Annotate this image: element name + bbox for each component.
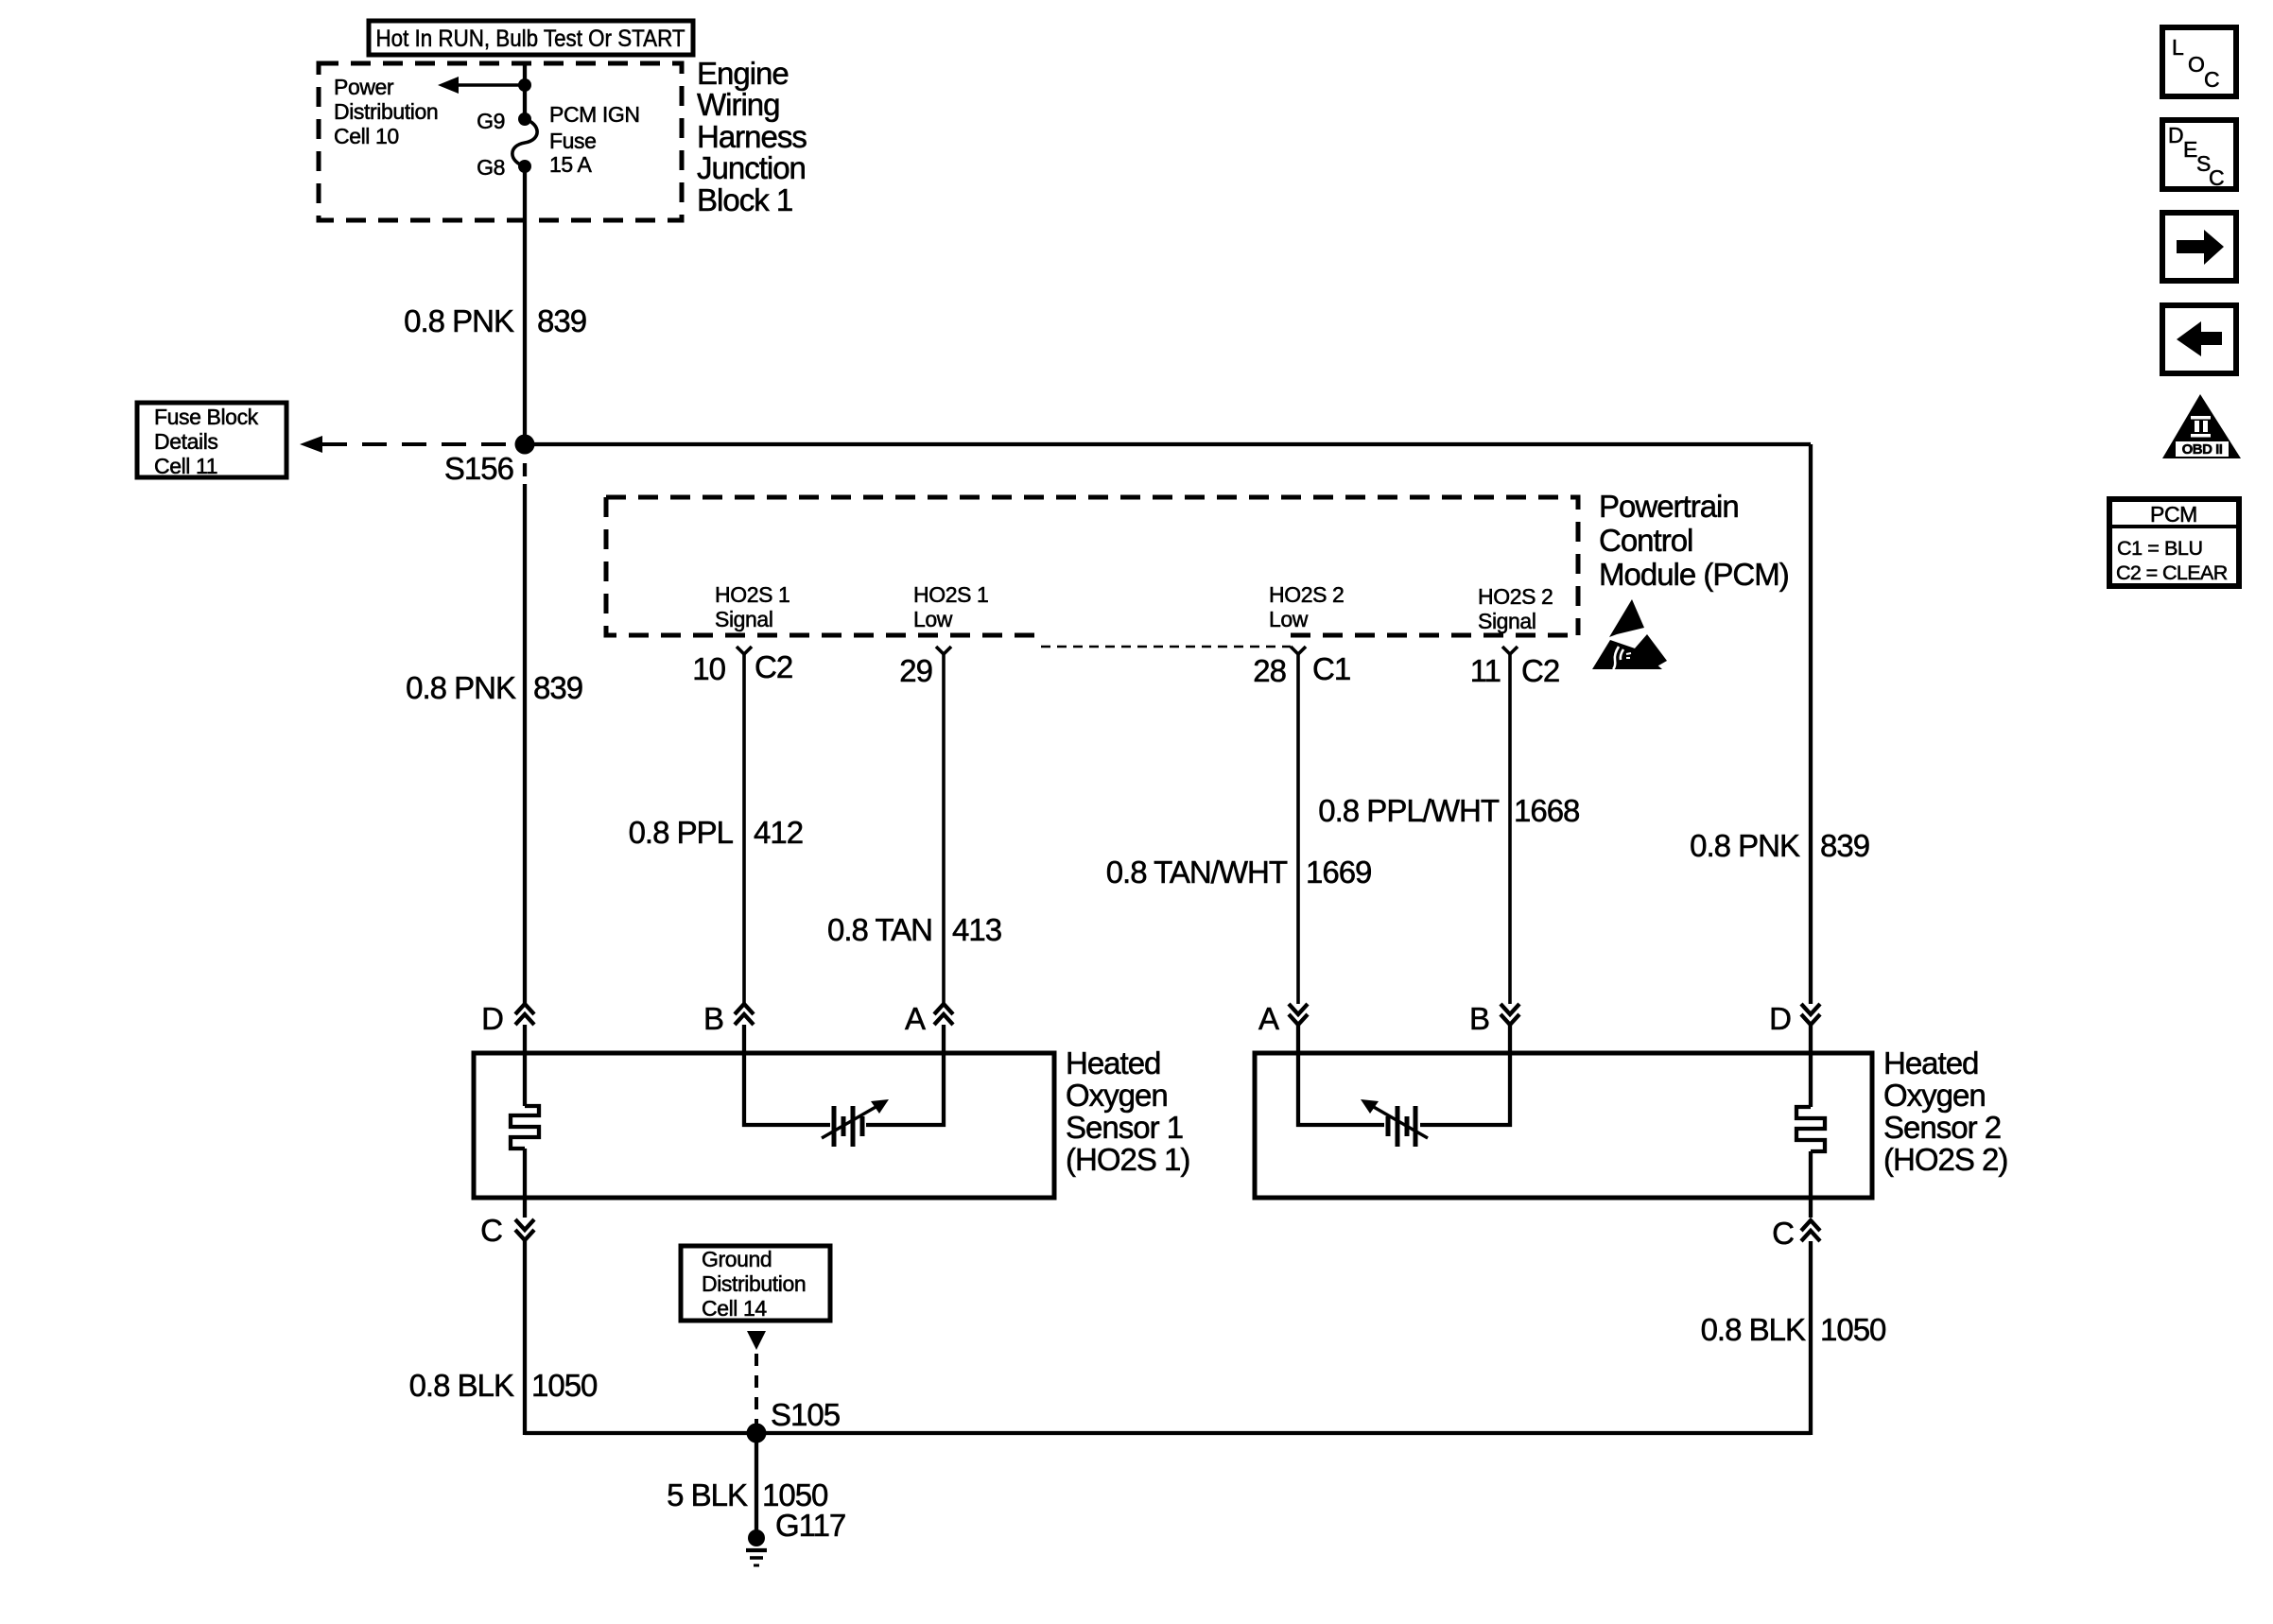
wire fuse output down to S156: [523, 166, 527, 444]
pin 10 C2 Y-connector: [737, 647, 752, 1004]
svg-text:28: 28: [1253, 653, 1286, 688]
svg-text:0.8 PNK: 0.8 PNK: [1690, 828, 1800, 863]
svg-text:A: A: [1258, 1001, 1279, 1036]
fuse PCM IGN 15A squiggle: [512, 119, 537, 166]
wire pin D into HO2S2 heater: [1809, 1025, 1813, 1107]
svg-text:0.8 PNK: 0.8 PNK: [406, 670, 516, 705]
wire label 0.8 TAN 413: [827, 912, 1001, 947]
pin 11 C2 labels: [1470, 653, 1559, 688]
svg-text:D: D: [481, 1001, 503, 1036]
sensing element (variable cell) HO2S1: [822, 1099, 889, 1147]
node G8 terminal dot: [518, 160, 531, 173]
HO2S2 box: [1255, 1053, 1872, 1198]
wire heater to pin C HO2S2: [1809, 1151, 1813, 1218]
svg-text:PCM: PCM: [2150, 502, 2197, 527]
svg-text:1050: 1050: [531, 1368, 598, 1403]
svg-text:OBD II: OBD II: [2182, 441, 2223, 458]
wire label 0.8 PNK 839 (upper): [404, 303, 586, 338]
wire HO2S1 C down to ground bus: [523, 1241, 527, 1435]
svg-text:C2: C2: [755, 649, 792, 684]
svg-text:A: A: [905, 1001, 926, 1036]
wire pin D into HO2S1 heater: [523, 1025, 527, 1106]
svg-text:11: 11: [1470, 653, 1501, 688]
ground G117 symbol: [746, 1529, 767, 1565]
node splice S105: [747, 1424, 767, 1443]
svg-text:G117: G117: [775, 1508, 845, 1543]
wire S105 down to G117: [755, 1433, 758, 1533]
svg-text:29: 29: [899, 653, 932, 688]
pin 11 C2 Y-connector: [1502, 647, 1518, 1004]
svg-text:412: 412: [754, 815, 803, 850]
connector split dashed line between C2 and C1 pins: [1041, 646, 1291, 648]
heater element HO2S2: [1796, 1107, 1825, 1151]
wire label 0.8 BLK 1050 (left): [409, 1368, 598, 1403]
connector chevrons pin A HO2S2 (down): [1289, 1004, 1308, 1025]
pin 10 C2 labels: [692, 649, 792, 686]
svg-text:S156: S156: [444, 451, 513, 486]
connector chevrons pin A HO2S1 (up): [934, 1004, 953, 1025]
svg-text:C2: C2: [1521, 653, 1559, 688]
wire pin A down inside HO2S1: [866, 1025, 944, 1125]
title box "Hot In RUN, Bulb Test Or START": [369, 21, 693, 55]
node G9 terminal dot: [518, 112, 531, 126]
wire right branch down to HO2S2 pin D: [1809, 444, 1813, 1004]
wire label 0.8 PNK 839 (right): [1690, 828, 1869, 863]
svg-text:0.8 BLK: 0.8 BLK: [1701, 1312, 1806, 1347]
wire label 0.8 TAN/WHT 1669: [1106, 855, 1372, 890]
svg-text:0.8 BLK: 0.8 BLK: [409, 1368, 514, 1403]
reference arrow from Ground Distribution box: [747, 1331, 766, 1350]
wire pin A down inside HO2S2: [1298, 1025, 1384, 1125]
OBD II warning triangle: [2162, 394, 2241, 458]
svg-text:0.8 PNK: 0.8 PNK: [404, 303, 514, 338]
wire from junction box top to fuse: [523, 61, 527, 119]
svg-text:C1: C1: [1312, 651, 1350, 686]
sensing element (variable cell) HO2S2: [1361, 1099, 1428, 1147]
svg-text:G8: G8: [477, 155, 505, 180]
legend right-arrow box: [2162, 213, 2236, 281]
wire HO2S2 C down to ground bus: [1809, 1241, 1813, 1435]
svg-text:C1 = BLU: C1 = BLU: [2117, 537, 2203, 560]
svg-text:839: 839: [1820, 828, 1869, 863]
pin 28 C1 Y-connector: [1291, 647, 1306, 1004]
wire label 0.8 BLK 1050 (right): [1701, 1312, 1886, 1347]
svg-text:1050: 1050: [1820, 1312, 1886, 1347]
pin 28 C1 labels: [1253, 651, 1350, 688]
box Fuse Block Details Cell 11: [137, 403, 286, 478]
ESD sensitivity symbol: [1592, 599, 1667, 669]
svg-text:413: 413: [952, 912, 1001, 947]
wire S156 horizontal bus to right side: [525, 442, 1811, 446]
svg-text:0.8 TAN: 0.8 TAN: [827, 912, 932, 947]
wire label 0.8 PPL/WHT 1668: [1318, 793, 1579, 828]
legend DESC box: [2162, 120, 2236, 190]
svg-text:0.8 PPL: 0.8 PPL: [629, 815, 734, 850]
PCM dashed box (Powertrain Control Module): [606, 497, 1578, 635]
svg-text:C2 = CLEAR: C2 = CLEAR: [2116, 561, 2228, 584]
svg-text:B: B: [703, 1001, 723, 1036]
svg-text:839: 839: [533, 670, 582, 705]
svg-text:1669: 1669: [1306, 855, 1371, 890]
svg-text:D: D: [1769, 1001, 1791, 1036]
connector chevrons pin D HO2S1 (up): [515, 1004, 534, 1025]
svg-text:S105: S105: [771, 1397, 840, 1432]
legend LOC box: [2162, 27, 2236, 96]
heater element HO2S1: [511, 1106, 539, 1149]
node junction dot in block: [518, 78, 531, 92]
pin 29 Y-connector: [936, 647, 951, 1004]
wire arrow to Power Distribution: [438, 77, 525, 94]
svg-text:5 BLK: 5 BLK: [667, 1477, 748, 1512]
svg-text:0.8 TAN/WHT: 0.8 TAN/WHT: [1106, 855, 1288, 890]
HO2S1 box: [474, 1053, 1054, 1198]
wire pin B down inside HO2S1: [744, 1025, 830, 1125]
dashed wire to S105: [755, 1354, 758, 1425]
wire pin B down inside HO2S2: [1420, 1025, 1510, 1125]
junction block dashed box (Engine Wiring Harness Junction Block 1): [319, 63, 682, 220]
svg-text:1668: 1668: [1514, 793, 1579, 828]
svg-text:839: 839: [537, 303, 586, 338]
legend left-arrow box: [2162, 305, 2236, 373]
svg-text:Hot In RUN, Bulb Test Or START: Hot In RUN, Bulb Test Or START: [376, 26, 685, 52]
connector chevrons pin C HO2S2 (up): [1801, 1220, 1820, 1241]
svg-text:10: 10: [692, 651, 725, 686]
svg-text:G9: G9: [477, 109, 505, 133]
dashed reference arrow to Fuse Block Details: [300, 436, 515, 453]
connector chevrons pin C HO2S1 (down): [515, 1219, 534, 1240]
ground bus wire: [525, 1431, 1811, 1435]
svg-text:0.8 PPL/WHT: 0.8 PPL/WHT: [1318, 793, 1500, 828]
wire label 0.8 PPL 412: [629, 815, 803, 850]
wire label 0.8 PNK 839 (lower left): [406, 670, 582, 705]
svg-text:C: C: [480, 1213, 502, 1248]
connector chevrons pin B HO2S2 (down): [1501, 1004, 1519, 1025]
wire S156 down (left branch) with splice dash: [523, 463, 527, 1004]
wire heater to pin C HO2S1: [523, 1149, 527, 1218]
connector chevrons pin D HO2S2 (down): [1801, 1004, 1820, 1025]
legend PCM connector box: [2109, 499, 2239, 586]
connector chevrons pin B HO2S1 (up): [735, 1004, 754, 1025]
svg-text:B: B: [1469, 1001, 1489, 1036]
svg-text:C: C: [1772, 1216, 1794, 1251]
wire label 5 BLK 1050: [667, 1477, 828, 1512]
node splice S156: [515, 435, 535, 455]
box Ground Distribution Cell 14: [681, 1246, 830, 1321]
